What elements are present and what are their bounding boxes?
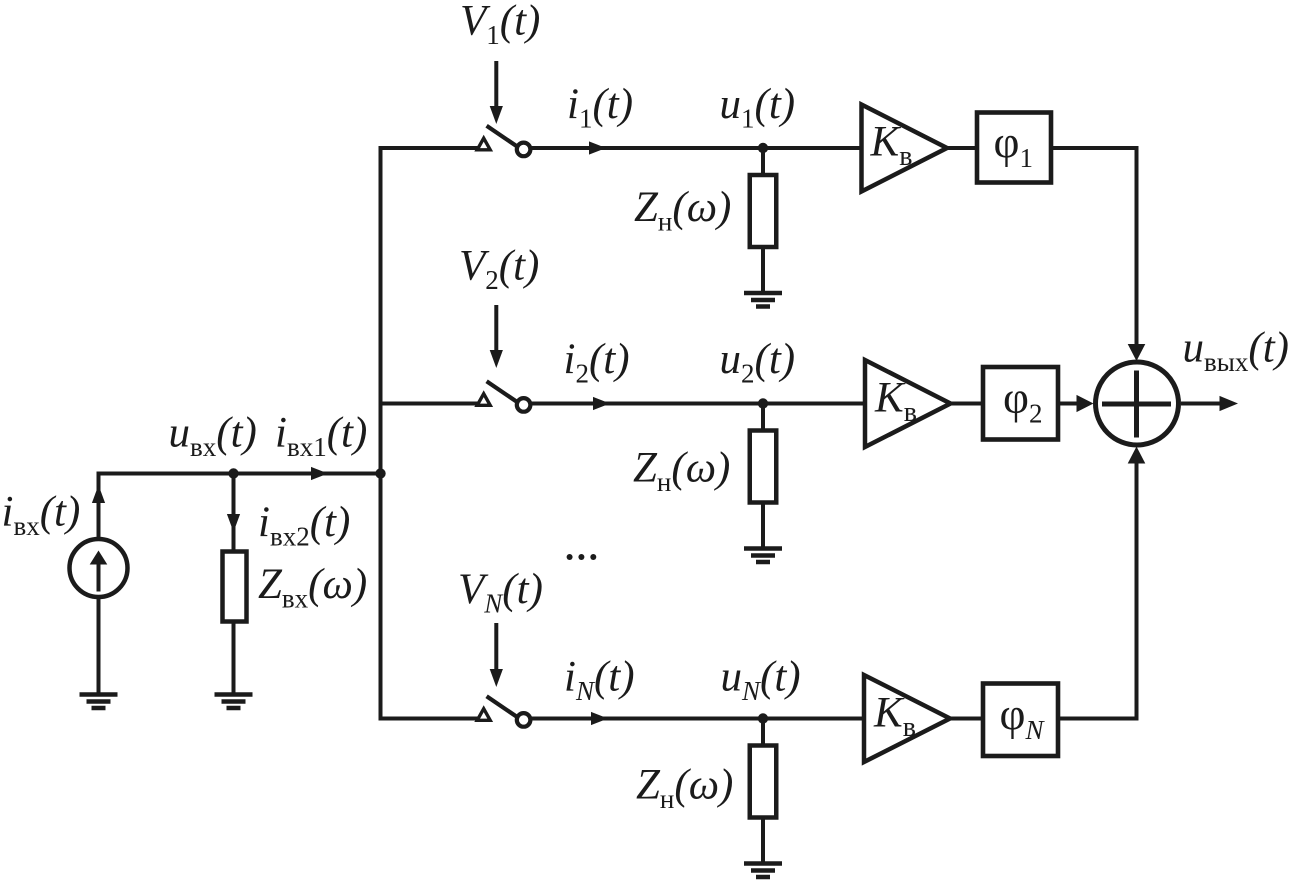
wire: node u_2 to amplifier K_в [763, 402, 865, 406]
switch S2 fixed-contact triangle [477, 394, 490, 406]
arrow: i_вх2 down arrow [227, 514, 240, 532]
node u_N junction dot [758, 713, 768, 723]
wire: node u_N to amplifier K_в [763, 717, 864, 721]
switch S2 control arrow from V label [490, 305, 503, 368]
svg-text:V2(t): V2(t) [459, 242, 539, 295]
ground under Z_вх [215, 695, 253, 709]
wire: Z_н bottom lead row 1 [761, 247, 765, 293]
svg-text:Zн(ω): Zн(ω) [633, 445, 730, 498]
ground under Z_н row 2 [744, 549, 782, 563]
phase shifter box φ1 [977, 113, 1051, 183]
ground under Z_н row 1 [744, 293, 782, 307]
arrow: current i_2 direction [593, 397, 610, 410]
svg-text:VN(t): VN(t) [458, 566, 543, 619]
switch S1 fixed-contact triangle [477, 138, 490, 150]
switch S2 blade [487, 381, 517, 402]
wire: Z_вх top lead [232, 474, 236, 552]
wire: Z_н top lead row 1 [761, 148, 765, 176]
resistor Z_н(ω) row N [750, 746, 777, 818]
wire: φ1 output to right bus corner [1051, 148, 1137, 346]
resistor Z_н(ω) row 1 [750, 175, 777, 247]
ground under current source [80, 695, 118, 709]
wire: node u_1 to amplifier K_в [763, 146, 862, 150]
arrow: into summer from left [1077, 395, 1094, 412]
wire: amplifier tip to phase box φ1 [946, 146, 977, 150]
wire: amplifier tip to phase box φN [949, 717, 983, 721]
svg-text:Zн(ω): Zн(ω) [636, 761, 733, 814]
wire: switch SN to node u_N [531, 717, 763, 721]
switch SN control arrow from V label [490, 623, 503, 687]
wire: bus to switch S1 [381, 146, 491, 150]
phase shifter box φN [983, 684, 1058, 757]
svg-text:uвых(t): uвых(t) [1183, 325, 1289, 378]
wire: φ2 output to summer [1058, 402, 1077, 406]
wire: switch S2 to node u_2 [531, 402, 763, 406]
op-amp/amplifier K_в row 2 [865, 360, 951, 447]
resistor Z_вх(ω) [223, 552, 247, 622]
svg-text:Zвх(ω): Zвх(ω) [258, 561, 367, 614]
op-amp/amplifier K_в row 1 [862, 105, 948, 192]
wire: summer output [1181, 402, 1223, 406]
arrow: into summer from bottom [1128, 447, 1146, 464]
wire: bus to switch S2 [381, 402, 491, 406]
svg-text:iN(t): iN(t) [564, 654, 635, 707]
svg-text:uN(t): uN(t) [721, 654, 801, 707]
svg-text:iвх1(t): iвх1(t) [275, 410, 367, 463]
ellipsis between rows [567, 554, 597, 560]
summer Σ circle [1096, 362, 1179, 445]
switch SN blade [487, 696, 517, 717]
current source internal arrow [90, 551, 108, 592]
arrow: current i_N direction [591, 712, 608, 725]
wire: Z_н bottom lead row 2 [761, 503, 765, 549]
resistor Z_н(ω) row 2 [750, 431, 777, 503]
wire: input node u_вх horizontal [97, 472, 381, 476]
svg-text:iвх(t): iвх(t) [2, 488, 81, 541]
wire: bus to switch SN [381, 717, 491, 721]
svg-text:iвх2(t): iвх2(t) [258, 499, 350, 552]
node u_2 junction dot [758, 398, 768, 408]
op-amp/amplifier K_в row N [864, 675, 950, 762]
arrow: current i_1 direction [589, 141, 606, 154]
wire: Z_н bottom lead row N [761, 818, 765, 864]
switch S1 blade [487, 126, 517, 147]
svg-text:u1(t): u1(t) [720, 81, 796, 134]
ground under Z_н row N [744, 864, 782, 878]
switch S2 moving-contact circle [517, 398, 531, 412]
node u_1 junction dot [758, 143, 768, 153]
svg-text:u2(t): u2(t) [720, 336, 796, 389]
arrow: output u_вых [1220, 396, 1239, 411]
arrow: i_вх up arrow on source lead [92, 485, 105, 503]
svg-text:i1(t): i1(t) [567, 81, 633, 134]
wire: switch S1 to node u_1 [531, 146, 763, 150]
switch SN moving-contact circle [517, 713, 531, 727]
arrow: into summer from top [1128, 344, 1146, 361]
switch SN fixed-contact triangle [477, 709, 490, 721]
wire: amplifier tip to phase box φ2 [950, 402, 984, 406]
switch S1 control arrow from V label [490, 61, 503, 124]
wire: current source bottom lead [97, 597, 101, 694]
wire: Z_вх bottom lead [232, 622, 236, 695]
current source I_вх circle [70, 539, 128, 597]
phase shifter box φ2 [983, 367, 1058, 440]
svg-text:V1(t): V1(t) [460, 0, 540, 50]
svg-text:i2(t): i2(t) [564, 336, 630, 389]
wire: Z_н top lead row 2 [761, 404, 765, 432]
svg-text:Zн(ω): Zн(ω) [634, 184, 731, 237]
wire: φN output to right bus corner (bottom) [1058, 463, 1137, 719]
svg-text:uвх(t): uвх(t) [169, 410, 257, 463]
summer plus sign [1102, 371, 1171, 438]
wire: left distribution bus vertical [379, 146, 383, 721]
node u_вх junction dot (Z_вх tap) [228, 468, 238, 478]
node: input wire to left bus junction dot [375, 468, 385, 478]
arrow: current direction i_вх1 on input wire [311, 467, 328, 480]
wire: current source top lead [97, 472, 101, 540]
wire: Z_н top lead row N [761, 719, 765, 747]
switch S1 moving-contact circle [517, 143, 531, 157]
